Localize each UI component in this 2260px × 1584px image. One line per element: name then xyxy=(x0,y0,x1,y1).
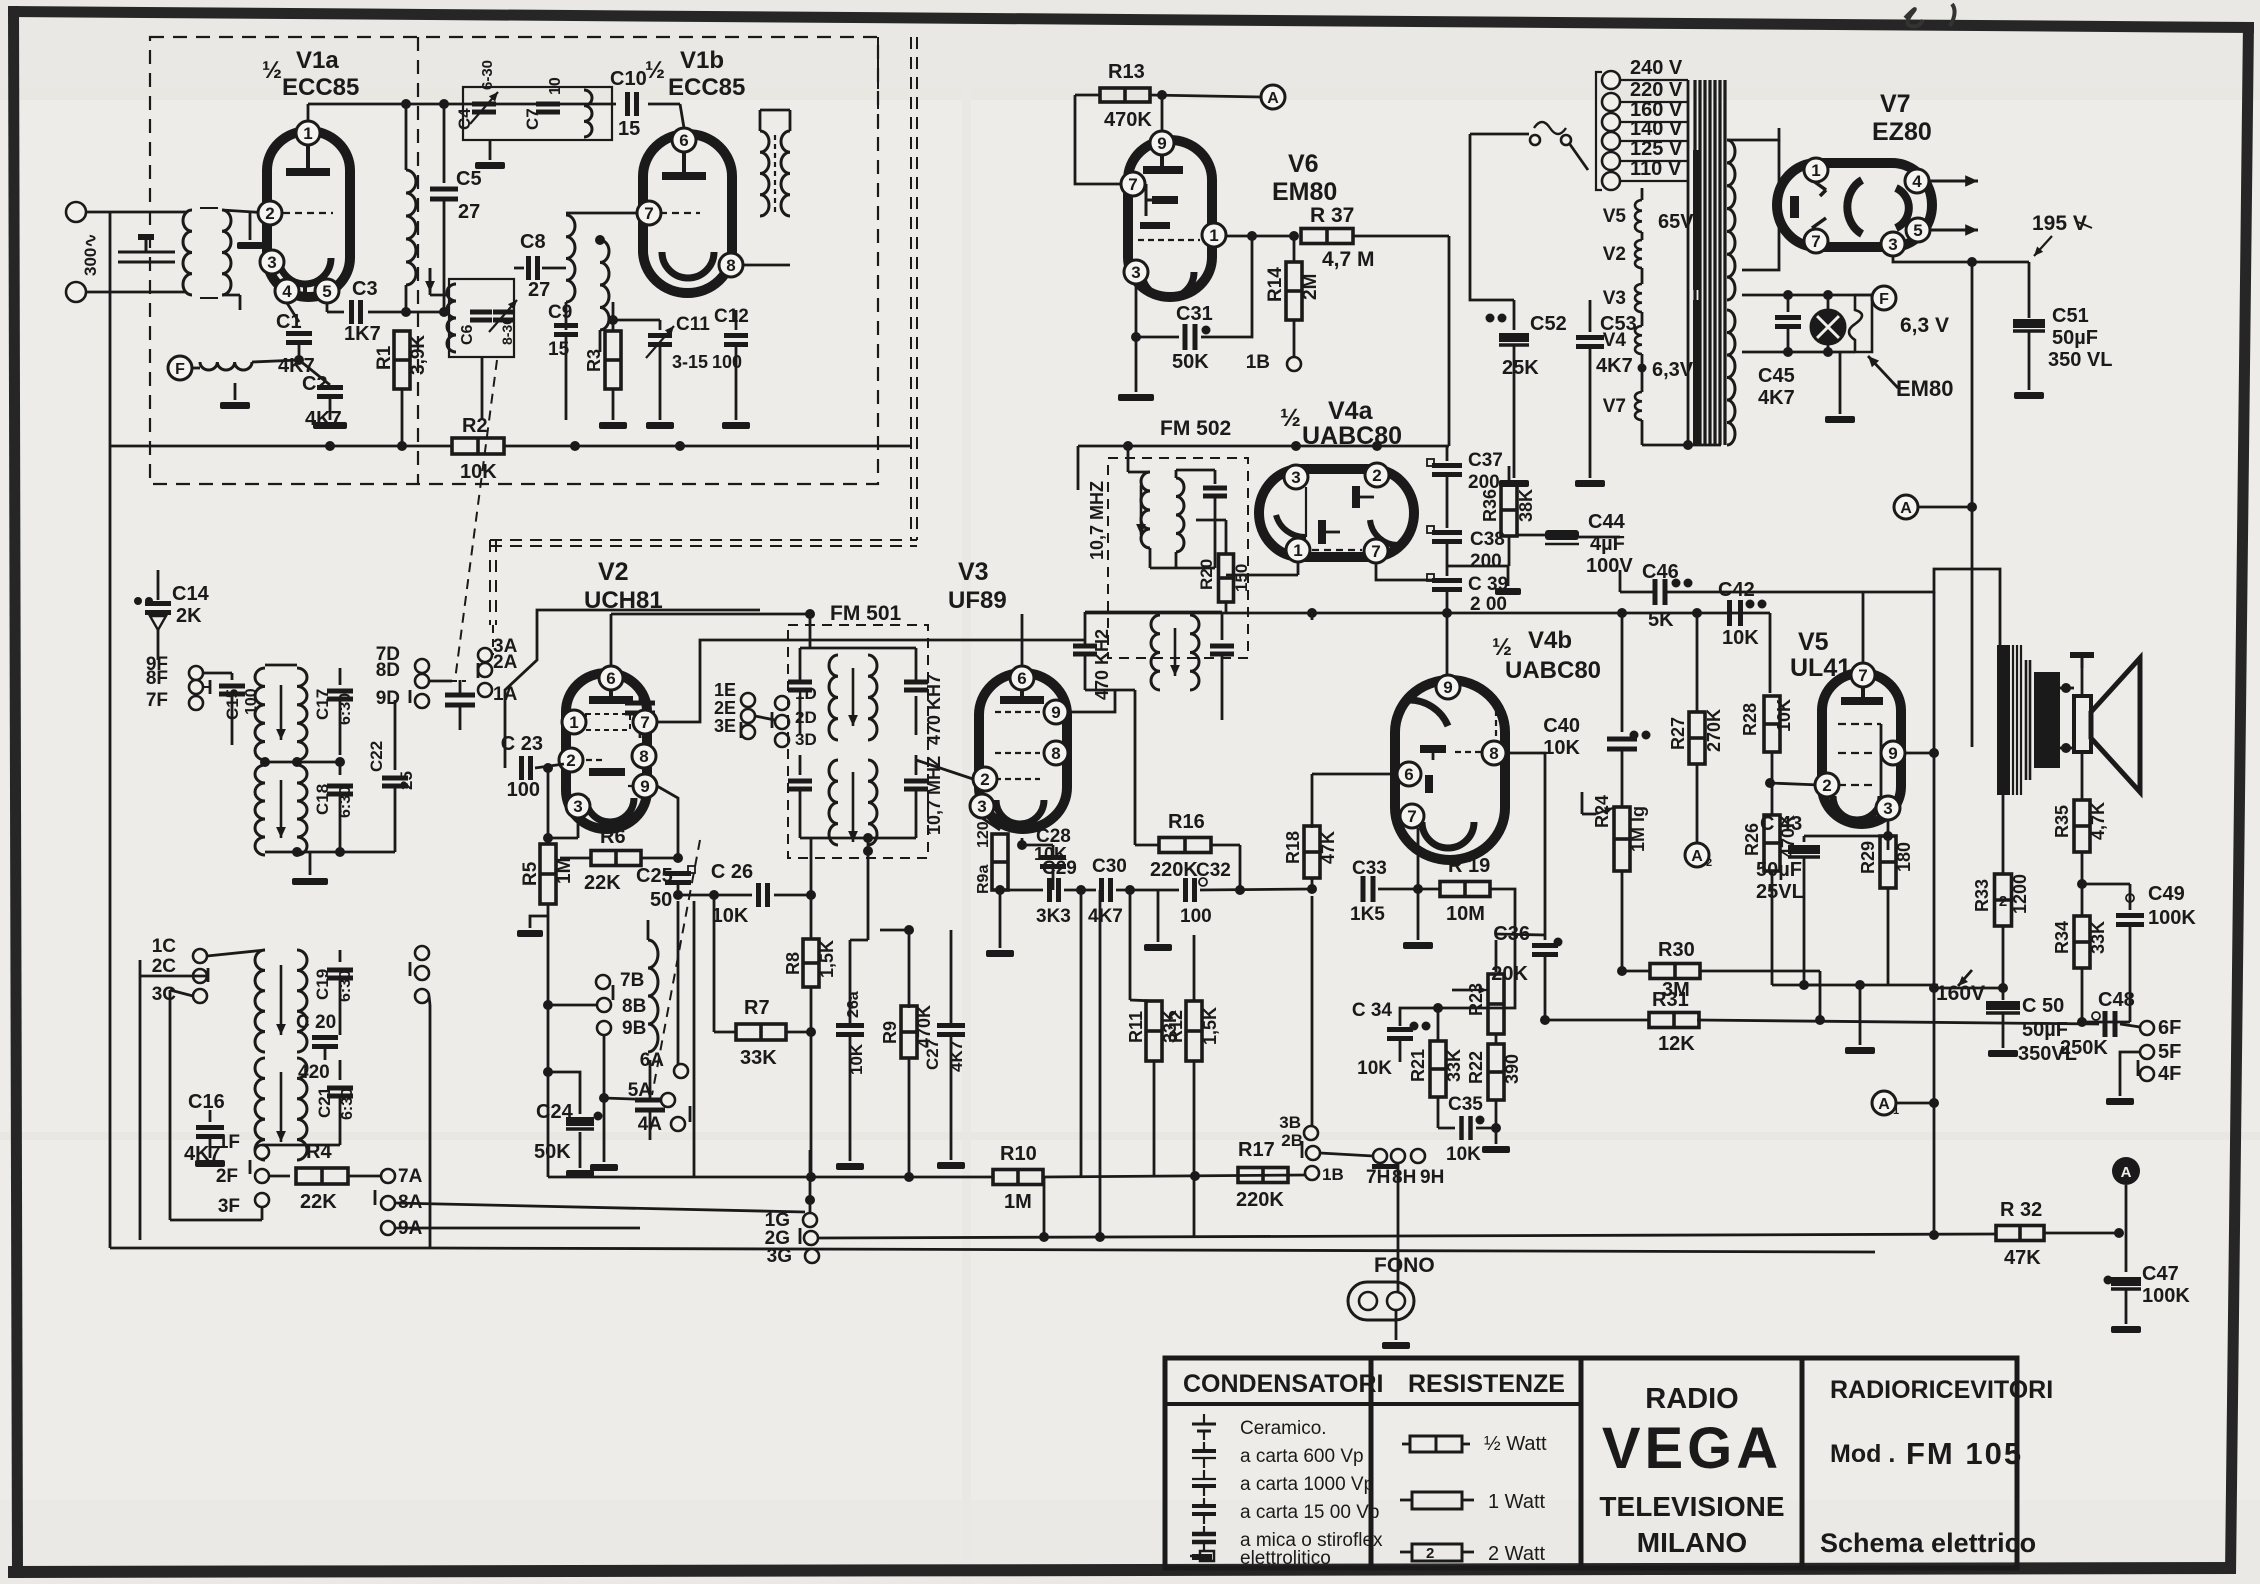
svg-text:25VL: 25VL xyxy=(1756,881,1804,903)
svg-text:C17: C17 xyxy=(313,689,332,720)
pin 7 V6 xyxy=(1121,172,1145,196)
resistor R20 150 xyxy=(1225,520,1228,553)
resistor R1 3,9K xyxy=(401,312,403,330)
wire R30 right down to R31 row xyxy=(1819,971,1822,1020)
svg-text:10K: 10K xyxy=(1543,737,1580,759)
470kHz IF transformer xyxy=(1085,611,1222,614)
svg-text:R9: R9 xyxy=(880,1021,900,1044)
wire pin6 left to R18 xyxy=(1312,773,1397,776)
junction 160V xyxy=(1998,983,2008,993)
terminal 2D xyxy=(775,715,789,729)
wire R13 left down to pin7 xyxy=(1075,95,1121,184)
capacitor C42 10K xyxy=(1727,600,1732,626)
svg-text:C10: C10 xyxy=(610,68,647,90)
svg-text:3D: 3D xyxy=(795,730,817,749)
svg-text:1C: 1C xyxy=(152,936,177,957)
terminal 2C xyxy=(193,969,207,983)
svg-text:1M: 1M xyxy=(554,858,575,884)
terminal 9F xyxy=(189,666,203,680)
svg-text:6: 6 xyxy=(1404,765,1413,784)
svg-text:10K: 10K xyxy=(1357,1058,1392,1079)
output transformer primary xyxy=(1997,645,2010,795)
choke coil at F xyxy=(192,367,200,370)
svg-text:R26: R26 xyxy=(1742,823,1762,856)
svg-text:100: 100 xyxy=(1180,906,1212,927)
antenna transformer xyxy=(183,210,192,295)
svg-text:C 23: C 23 xyxy=(501,733,543,755)
terminal 1B bottom xyxy=(1305,1166,1319,1180)
svg-text:FONO: FONO xyxy=(1374,1254,1435,1277)
EM80 heater socket shape xyxy=(1849,295,1872,352)
AM osc coil secondary xyxy=(255,1058,265,1160)
terminal 8A xyxy=(381,1196,395,1210)
speaker secondary to R35 xyxy=(2065,748,2067,770)
wire bus left down xyxy=(1084,446,1086,612)
svg-text:V7: V7 xyxy=(1603,396,1626,417)
svg-text:9: 9 xyxy=(1888,744,1897,763)
right gang trimmer xyxy=(635,1098,665,1103)
vertical x1312 to row xyxy=(1311,613,1314,620)
svg-text:FM 105: FM 105 xyxy=(1906,1436,2023,1471)
svg-text:1 Watt: 1 Watt xyxy=(1488,1491,1545,1513)
capacitor C36 20K xyxy=(1544,935,1547,940)
svg-text:15: 15 xyxy=(618,118,640,140)
svg-text:1: 1 xyxy=(569,713,578,732)
capacitor C33 1K5 xyxy=(1361,876,1366,902)
capacitor C20 420 xyxy=(297,1051,340,1053)
speaker terminal xyxy=(2081,668,2084,696)
svg-text:5A: 5A xyxy=(628,1080,653,1101)
wire antenna xyxy=(86,211,186,214)
resistor R6 22K xyxy=(560,857,592,860)
svg-text:V3: V3 xyxy=(1603,288,1626,309)
svg-text:½: ½ xyxy=(1280,404,1301,432)
wire cathode pin3 xyxy=(1887,820,1890,850)
AM osc coil primary xyxy=(255,950,265,1052)
tuning gang cap AM 1 xyxy=(451,640,453,660)
wire R23 top from R19 node xyxy=(1514,889,1516,935)
pin 4 V7 xyxy=(1905,169,1929,193)
pin 2 V4a xyxy=(1365,463,1389,487)
pin 7 V7 xyxy=(1804,229,1828,253)
terminal 8H xyxy=(1391,1149,1405,1163)
tap box outline xyxy=(1596,72,1602,190)
pin 6 V4b xyxy=(1397,762,1421,786)
svg-text:1: 1 xyxy=(1811,161,1820,180)
mains tap terminals xyxy=(1602,71,1620,89)
svg-text:C44: C44 xyxy=(1588,511,1626,533)
wire R28 to V5 grid xyxy=(1770,783,1820,785)
ground under V6 xyxy=(1135,337,1137,390)
pin 9 V2 xyxy=(633,774,657,798)
capacitor C28 10K xyxy=(1000,844,1046,846)
resistor R30 3M xyxy=(1622,970,1650,973)
wire 195V to OT top right side xyxy=(2059,687,2061,689)
svg-text:47K: 47K xyxy=(2004,1247,2041,1269)
ground stub at pin2 line xyxy=(249,213,252,240)
svg-text:2: 2 xyxy=(566,751,575,770)
svg-text:470 KH7: 470 KH7 xyxy=(924,674,944,745)
resistor R12 1,5K xyxy=(1186,1001,1202,1061)
svg-text:5K: 5K xyxy=(1648,609,1674,631)
wire IF right down xyxy=(1221,690,1224,720)
pin 6 V2 xyxy=(599,666,623,690)
svg-text:160V: 160V xyxy=(1936,982,1985,1005)
svg-text:26a: 26a xyxy=(845,991,862,1018)
svg-text:220 V: 220 V xyxy=(1630,79,1683,101)
terminal 3F xyxy=(255,1193,269,1207)
svg-text:R 37: R 37 xyxy=(1310,204,1354,227)
capacitor C40 10K xyxy=(1621,613,1624,732)
capacitor C24 50K xyxy=(543,1067,553,1077)
svg-text:VEGA: VEGA xyxy=(1602,1416,1782,1481)
svg-text:100V: 100V xyxy=(1586,555,1633,577)
capacitor C26 10K xyxy=(678,894,752,897)
pin 8 V1b xyxy=(719,253,743,277)
A terminal mid right xyxy=(1894,495,1918,519)
resistor R36 38K xyxy=(1508,446,1510,486)
svg-text:8: 8 xyxy=(1051,744,1060,763)
capacitor C17 6-30 xyxy=(297,664,340,666)
pin 1 V4a xyxy=(1286,538,1310,562)
terminal 7D xyxy=(415,659,429,673)
pin 3 V2 xyxy=(566,794,590,818)
svg-text:C40: C40 xyxy=(1543,715,1580,737)
svg-text:1K5: 1K5 xyxy=(1350,904,1385,925)
resistor R3 xyxy=(605,331,621,389)
svg-text:2 00: 2 00 xyxy=(1470,594,1507,615)
terminal 3A xyxy=(478,648,492,662)
svg-text:R16: R16 xyxy=(1168,811,1205,833)
wire 9A bus right xyxy=(395,1227,640,1230)
antenna terminal top xyxy=(66,202,86,222)
svg-text:2: 2 xyxy=(1706,857,1712,869)
svg-text:½ Watt: ½ Watt xyxy=(1484,1433,1547,1455)
wire FM501 bottom to ground xyxy=(867,838,870,862)
svg-text:2K: 2K xyxy=(176,605,202,627)
svg-text:10: 10 xyxy=(547,77,564,95)
pin 1 V7 xyxy=(1804,158,1828,182)
terminal 1B top xyxy=(1287,357,1301,371)
svg-text:220K: 220K xyxy=(1150,859,1198,881)
svg-text:C19: C19 xyxy=(313,969,332,1000)
wire 6A up to C25 column xyxy=(680,1060,682,1064)
terminal 1D xyxy=(775,696,789,710)
secondary winding heater xyxy=(1727,310,1735,445)
svg-text:7F: 7F xyxy=(146,690,168,711)
svg-text:10K: 10K xyxy=(1446,1144,1481,1165)
svg-text:C31: C31 xyxy=(1176,303,1213,325)
svg-text:25K: 25K xyxy=(1502,357,1539,379)
svg-text:A: A xyxy=(1900,500,1912,517)
terminal 8F xyxy=(189,680,203,694)
capacitor C10 xyxy=(625,92,630,116)
resistor R16 220K xyxy=(1134,690,1137,845)
svg-text:8H: 8H xyxy=(1392,1167,1416,1188)
pin 1 V1a xyxy=(296,121,320,145)
svg-text:470K: 470K xyxy=(1104,109,1152,131)
svg-text:2C: 2C xyxy=(152,956,177,977)
tube V3 UF89 xyxy=(979,673,1067,829)
svg-text:9: 9 xyxy=(1157,134,1166,153)
terminal 7B xyxy=(596,975,610,989)
output transformer secondary xyxy=(2034,672,2060,768)
resistor R28 10K xyxy=(1764,696,1780,752)
wire left of cathode bus xyxy=(1622,970,1772,972)
svg-text:R20: R20 xyxy=(1197,559,1216,590)
terminal 9A xyxy=(381,1221,395,1235)
svg-text:9H: 9H xyxy=(1420,1167,1444,1188)
terminal 1F xyxy=(255,1145,269,1159)
svg-text:V1b: V1b xyxy=(680,47,724,74)
svg-text:Schema elettrico: Schema elettrico xyxy=(1820,1528,2036,1558)
svg-text:C48: C48 xyxy=(2098,989,2135,1011)
svg-text:R35: R35 xyxy=(2052,805,2072,838)
terminal 3G xyxy=(805,1249,819,1263)
resistor R10 1M xyxy=(548,1176,993,1179)
wire 2A down to C23 xyxy=(485,677,505,705)
junction above 1G xyxy=(805,1195,815,1205)
svg-text:195 V: 195 V xyxy=(2032,212,2087,235)
resistor R9a 120 xyxy=(982,818,1000,830)
svg-text:47K: 47K xyxy=(1318,831,1338,864)
tube V1a ECC85 xyxy=(267,131,350,297)
svg-text:TELEVISIONE: TELEVISIONE xyxy=(1599,1491,1784,1522)
svg-text:2M: 2M xyxy=(1300,274,1321,300)
svg-text:2: 2 xyxy=(1372,466,1381,485)
svg-text:1M lg: 1M lg xyxy=(1628,806,1648,852)
capacitor C51 50uF 350VL xyxy=(2013,319,2045,328)
svg-text:33K: 33K xyxy=(740,1047,777,1069)
svg-text:8D: 8D xyxy=(376,660,400,681)
svg-text:1,5K: 1,5K xyxy=(1200,1007,1220,1045)
wire pin7 V1b row xyxy=(566,212,649,215)
svg-text:200: 200 xyxy=(1470,551,1502,572)
capacitor C11 3-15 xyxy=(659,320,662,330)
resistor R11 33K xyxy=(1146,1001,1162,1061)
svg-text:50µF: 50µF xyxy=(2052,327,2098,349)
pin 1 V2 xyxy=(562,710,586,734)
svg-text:6A: 6A xyxy=(640,1050,665,1071)
second gang cap xyxy=(625,701,655,706)
pin 9 V3 xyxy=(1044,700,1068,724)
bottom of transformer xyxy=(1642,444,1721,447)
svg-text:R14: R14 xyxy=(1265,267,1286,302)
svg-text:2: 2 xyxy=(1822,776,1831,795)
svg-text:9: 9 xyxy=(1443,678,1452,697)
svg-text:V5: V5 xyxy=(1603,206,1627,227)
svg-text:110 V: 110 V xyxy=(1630,158,1682,180)
svg-text:2: 2 xyxy=(265,204,274,223)
svg-text:R11: R11 xyxy=(1126,1011,1146,1043)
pin 9 V4b xyxy=(1436,675,1460,699)
tube V2 UCH81 xyxy=(566,673,647,829)
wire R20 bottom bus xyxy=(1225,602,1227,613)
wire 195V down to C51 xyxy=(2028,248,2030,262)
svg-text:8: 8 xyxy=(1489,744,1498,763)
ground heater xyxy=(1831,352,1833,415)
svg-text:4K7: 4K7 xyxy=(1088,906,1123,927)
capacitor C3 xyxy=(326,303,329,312)
svg-text:C18: C18 xyxy=(313,784,332,815)
pin 7 V4a xyxy=(1364,539,1388,563)
terminal 6F xyxy=(2140,1021,2154,1035)
IF coil T1 primary xyxy=(255,668,265,760)
svg-text:R9a: R9a xyxy=(975,865,992,894)
arrow output 5 xyxy=(1930,229,1978,232)
AM osc coil right xyxy=(648,940,658,1052)
svg-text:C35: C35 xyxy=(1448,1094,1483,1115)
svg-text:150: 150 xyxy=(1232,564,1251,592)
svg-text:9D: 9D xyxy=(376,688,400,709)
wire V4a pin1 row xyxy=(1226,560,1298,575)
svg-text:R30: R30 xyxy=(1658,939,1695,961)
wire anode bus y104 xyxy=(307,104,310,121)
svg-text:R33: R33 xyxy=(1972,879,1992,912)
R12 top to row xyxy=(1193,890,1195,1001)
resistor R19 10M xyxy=(1440,882,1490,897)
svg-text:C33: C33 xyxy=(1352,858,1387,879)
terminal 9B xyxy=(597,1021,611,1035)
svg-text:10K: 10K xyxy=(1722,627,1759,649)
capacitor C31 50K xyxy=(1136,284,1179,337)
FM502 10.7MHz transformer xyxy=(1127,446,1130,472)
svg-text:R3: R3 xyxy=(584,349,604,372)
svg-text:C8: C8 xyxy=(520,231,546,253)
resistor R14 2M xyxy=(1289,231,1299,241)
svg-text:100: 100 xyxy=(712,352,742,372)
row y1022 from R31 to C48 xyxy=(1697,1020,2099,1024)
svg-text:C11: C11 xyxy=(676,314,710,335)
svg-text:3K3: 3K3 xyxy=(1036,906,1071,927)
capacitor C25 50 xyxy=(657,786,678,858)
svg-text:C16: C16 xyxy=(188,1091,225,1113)
wire R26 bottom row xyxy=(1772,984,1820,987)
svg-text:R1: R1 xyxy=(374,345,395,370)
svg-text:a carta 600 Vp: a carta 600 Vp xyxy=(1240,1446,1364,1467)
svg-text:R27: R27 xyxy=(1668,717,1688,750)
terminal 1C xyxy=(193,949,207,963)
svg-text:6: 6 xyxy=(679,131,688,150)
pin 6 V3 xyxy=(1010,666,1034,690)
terminal 3C xyxy=(193,989,207,1003)
title block dividers xyxy=(1369,1358,1374,1568)
svg-text:R22: R22 xyxy=(1466,1051,1486,1084)
wire 1F up xyxy=(261,1145,263,1152)
svg-text:C 26: C 26 xyxy=(711,861,753,883)
svg-text:180: 180 xyxy=(1894,842,1914,872)
arrow output 4 xyxy=(1930,180,1978,183)
capacitor C30 4K7 xyxy=(1099,878,1104,902)
capacitor C50 50uF 350VL xyxy=(2002,988,2005,1000)
antenna terminal bottom xyxy=(66,282,86,302)
svg-text:C30: C30 xyxy=(1092,856,1127,877)
svg-text:1: 1 xyxy=(1293,541,1302,560)
svg-text:V1a: V1a xyxy=(296,47,339,74)
svg-text:a carta 1000 Vp: a carta 1000 Vp xyxy=(1240,1474,1374,1495)
wire FM501 to V3 grid xyxy=(916,759,966,761)
svg-text:220K: 220K xyxy=(1236,1189,1284,1211)
svg-text:350 VL: 350 VL xyxy=(2048,349,2112,371)
svg-text:65V: 65V xyxy=(1658,211,1694,233)
svg-text:C7: C7 xyxy=(523,108,542,130)
tube V5 UL41 xyxy=(1822,673,1901,824)
svg-text:C27: C27 xyxy=(923,1039,942,1070)
svg-text:R23: R23 xyxy=(1466,983,1486,1016)
terminal 3E xyxy=(741,725,755,739)
wire R37 down to V4a bus xyxy=(1448,236,1451,446)
ground stub row890 xyxy=(1157,890,1160,942)
resistor R33 1200 2W xyxy=(1995,874,2012,926)
FM501 bottom transformer xyxy=(799,755,802,775)
terminal 2E xyxy=(741,709,755,723)
wire 3B up xyxy=(1311,896,1314,1126)
svg-text:9: 9 xyxy=(640,777,649,796)
svg-text:R4: R4 xyxy=(306,1141,332,1163)
V7 plate wires xyxy=(1742,128,1790,163)
svg-text:MILANO: MILANO xyxy=(1637,1527,1747,1558)
svg-text:2: 2 xyxy=(1426,1545,1434,1562)
resistor R13 470K xyxy=(1075,94,1100,97)
resistor R34 33K xyxy=(2074,916,2090,968)
resistor R17 220K xyxy=(1238,1168,1288,1183)
row y890 with C29 C30 C32 C33 xyxy=(1000,889,1043,892)
resistor R21 33K xyxy=(1430,1041,1446,1097)
svg-text:2D: 2D xyxy=(795,708,817,727)
FM502 dashed box xyxy=(1108,458,1248,658)
terminal 1E xyxy=(741,693,755,707)
resistor R2 10K xyxy=(109,292,112,446)
svg-text:C 50: C 50 xyxy=(2022,995,2064,1017)
svg-text:3: 3 xyxy=(267,253,276,272)
wire pin2 to FM501 xyxy=(916,760,973,779)
svg-text:50K: 50K xyxy=(534,1141,571,1163)
capacitor C14 2K xyxy=(157,570,160,600)
svg-text:R21: R21 xyxy=(1408,1049,1428,1082)
bottom left box wires xyxy=(110,1247,430,1250)
svg-text:C3: C3 xyxy=(352,278,378,300)
terminal A top xyxy=(1261,85,1285,109)
capacitor C22 25 xyxy=(394,700,397,770)
pin 2 V5 xyxy=(1815,773,1839,797)
svg-text:50K: 50K xyxy=(1172,351,1209,373)
svg-text:27: 27 xyxy=(528,279,550,301)
svg-text:5F: 5F xyxy=(2158,1041,2181,1063)
svg-text:5: 5 xyxy=(1913,221,1922,240)
svg-text:C 34: C 34 xyxy=(1352,1000,1393,1021)
svg-text:7: 7 xyxy=(640,713,649,732)
svg-text:3C: 3C xyxy=(152,984,177,1005)
svg-text:250K: 250K xyxy=(2060,1037,2108,1059)
wire pin7 down xyxy=(1417,828,1420,889)
svg-text:C46: C46 xyxy=(1642,561,1679,583)
pin 2 V2 xyxy=(559,748,583,772)
svg-text:C12: C12 xyxy=(714,306,749,327)
svg-text:A: A xyxy=(1878,1096,1890,1113)
svg-text:V3: V3 xyxy=(958,558,989,586)
wire R11 R12 tops xyxy=(1193,935,1195,1001)
svg-text:4K7: 4K7 xyxy=(1758,387,1795,409)
capacitor C9 15 xyxy=(565,302,567,316)
secondary winding HT xyxy=(1727,140,1735,300)
svg-text:RADIORICEVITORI: RADIORICEVITORI xyxy=(1830,1376,2053,1404)
wire pin3 down to 195V line xyxy=(1893,256,2029,262)
oscillator coil top xyxy=(584,90,592,137)
pin 3 V6 xyxy=(1124,260,1148,284)
capacitor C18 6-30 xyxy=(339,762,342,775)
svg-text:ECC85: ECC85 xyxy=(282,74,359,101)
svg-text:6: 6 xyxy=(1017,669,1026,688)
